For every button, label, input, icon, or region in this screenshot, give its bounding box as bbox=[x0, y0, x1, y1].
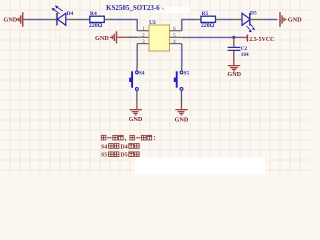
wire R4 to U2 pin1 bbox=[104, 20, 137, 31]
wire GND to U2 pin2 bbox=[117, 36, 138, 38]
svg-text:D4: D4 bbox=[67, 11, 74, 17]
svg-text:2.5-5VCC: 2.5-5VCC bbox=[249, 37, 274, 43]
svg-text:GND: GND bbox=[175, 116, 189, 123]
power ground GND right bbox=[280, 12, 302, 27]
svg-text:220Ω: 220Ω bbox=[89, 23, 103, 29]
resistor R5 bbox=[201, 11, 216, 29]
power ground GND left bbox=[4, 12, 23, 27]
svg-text:D4: D4 bbox=[121, 144, 128, 150]
svg-text:D5: D5 bbox=[250, 11, 257, 17]
wire S4 to ground bbox=[136, 90, 138, 109]
pin 6 bbox=[170, 27, 182, 32]
switch S4 bbox=[129, 70, 145, 90]
svg-text:GND: GND bbox=[227, 71, 241, 78]
earth ground under S4 bbox=[129, 110, 143, 124]
pin 1 bbox=[137, 27, 149, 32]
pin 2 bbox=[138, 34, 149, 39]
wire GND to D4 bbox=[24, 19, 57, 21]
svg-text:S5: S5 bbox=[101, 153, 107, 159]
svg-text:GND: GND bbox=[129, 116, 143, 123]
IC U2 bbox=[149, 20, 170, 51]
switch S5 bbox=[174, 70, 190, 90]
label KS2505_SOT23-6 bbox=[106, 4, 164, 12]
capacitor C2 bbox=[228, 37, 249, 65]
svg-text:104: 104 bbox=[241, 52, 249, 58]
power ground GND middle bbox=[95, 31, 117, 43]
wire D4 to R4 bbox=[66, 19, 90, 21]
wire R5 to D5 bbox=[216, 19, 242, 21]
svg-text:C2: C2 bbox=[241, 46, 248, 52]
svg-text:220Ω: 220Ω bbox=[201, 23, 215, 29]
svg-text:S4: S4 bbox=[101, 144, 107, 150]
svg-text:GND: GND bbox=[95, 35, 109, 42]
pin 3 bbox=[137, 40, 149, 45]
svg-text:D5: D5 bbox=[121, 153, 128, 159]
annotation line 1 bbox=[101, 135, 154, 140]
wire D5 to GND right bbox=[250, 19, 278, 21]
svg-text:U2: U2 bbox=[149, 20, 156, 26]
wire pin5 to VCC rail bbox=[182, 36, 247, 38]
svg-text:GND: GND bbox=[288, 16, 302, 23]
annotation line 2 bbox=[101, 144, 139, 151]
svg-text:R5: R5 bbox=[202, 11, 209, 17]
junction node bbox=[232, 36, 235, 39]
pin 5 bbox=[170, 34, 182, 39]
wire pin3 to S4 bbox=[136, 44, 138, 71]
wire pin4 to S5 bbox=[181, 44, 183, 71]
svg-text:S5: S5 bbox=[184, 70, 190, 76]
annotation line 3 bbox=[101, 152, 139, 159]
LED D4 bbox=[52, 6, 74, 26]
svg-text:S4: S4 bbox=[139, 70, 145, 76]
power port 2.5-5VCC bbox=[247, 35, 274, 43]
wire S5 to ground bbox=[181, 90, 183, 109]
svg-text:R4: R4 bbox=[90, 11, 97, 17]
pin 4 bbox=[170, 40, 182, 45]
wire pin6 up to R5 bbox=[182, 20, 201, 31]
LED D5 bbox=[242, 11, 257, 33]
svg-text:GND: GND bbox=[4, 16, 18, 23]
earth ground under S5 bbox=[175, 110, 189, 124]
resistor R4 bbox=[89, 11, 104, 29]
earth ground under C2 bbox=[227, 66, 241, 79]
svg-text:KS2505_SOT23-6: KS2505_SOT23-6 bbox=[106, 4, 160, 12]
